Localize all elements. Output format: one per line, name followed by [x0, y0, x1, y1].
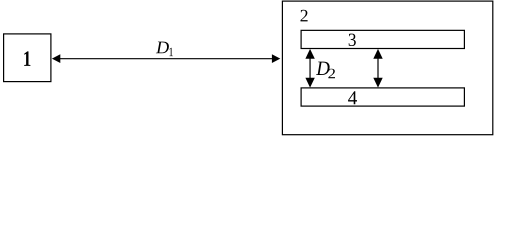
box 2 — [282, 1, 492, 135]
label 4 — [348, 91, 357, 104]
box 1 — [4, 34, 51, 82]
label D1 — [156, 42, 173, 57]
label 3 — [349, 34, 356, 46]
vertical double arrow right between rect 3 and rect 4 — [373, 49, 382, 88]
label D2 — [316, 62, 335, 79]
rect 3 — [301, 30, 464, 48]
label 2 — [301, 10, 308, 22]
rect 4 — [301, 88, 464, 106]
horizontal double arrow D1 between box 1 and box 2 — [52, 54, 280, 63]
vertical double arrow left between rect 3 and rect 4 — [305, 49, 314, 88]
label 1 — [24, 51, 30, 66]
